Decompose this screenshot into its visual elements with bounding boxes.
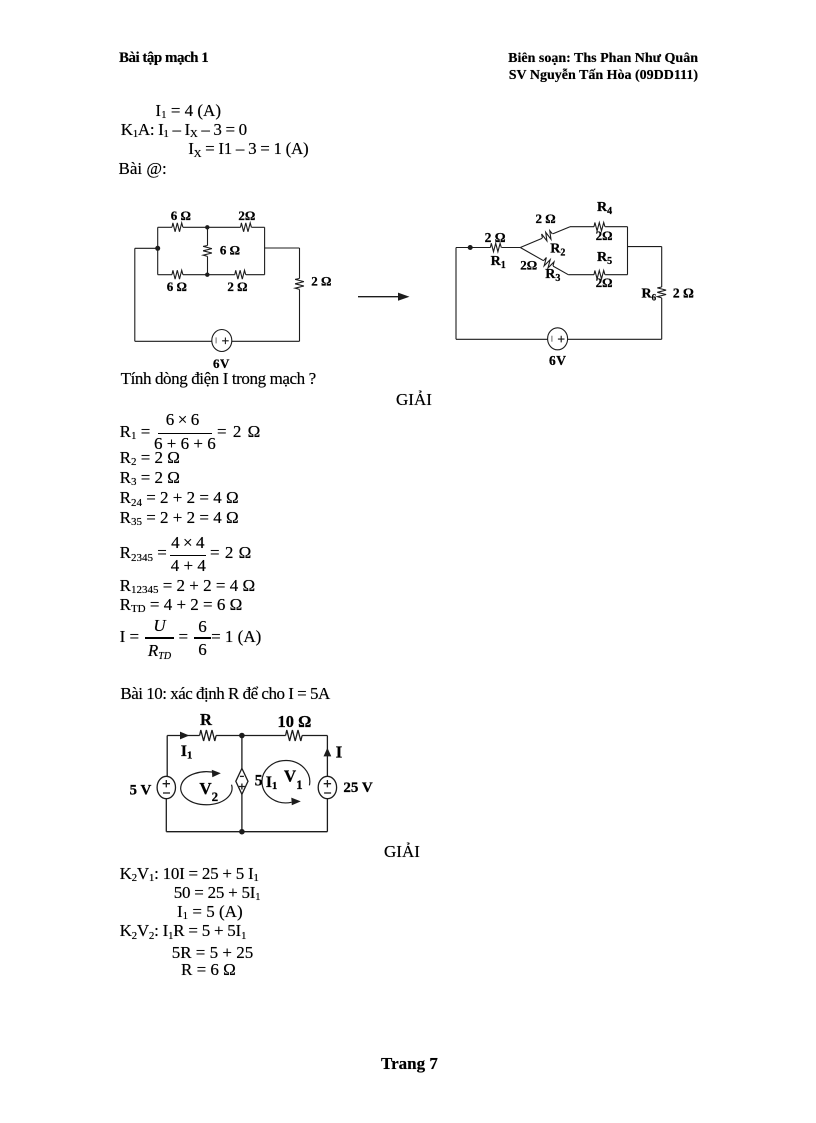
junction node top middle bbox=[205, 225, 209, 229]
mesh loop V2 arc bbox=[181, 772, 232, 805]
resistor 6ohm middle vertical bbox=[203, 246, 212, 257]
plus terminal mark bbox=[558, 336, 565, 343]
equations block 2 bbox=[120, 865, 259, 885]
svg-text:2Ω: 2Ω bbox=[520, 258, 537, 273]
wire bottom branch right bbox=[605, 274, 627, 276]
wire right vertical upper bbox=[299, 248, 301, 279]
junction node bottom bbox=[239, 829, 245, 835]
resistor R6 vertical bbox=[657, 287, 666, 298]
minus mark 25V bbox=[324, 792, 331, 794]
wire top branch left bbox=[570, 226, 594, 228]
Bai 10 bbox=[120, 685, 329, 702]
svg-text:R4: R4 bbox=[597, 200, 612, 217]
plus terminal mark bbox=[222, 338, 229, 345]
resistor R2 diagonal bbox=[541, 230, 554, 242]
minus terminal mark bbox=[215, 337, 217, 343]
wire right vertical upper bbox=[661, 247, 663, 287]
question + giai bbox=[121, 370, 316, 387]
svg-text:2Ω: 2Ω bbox=[238, 208, 255, 223]
voltage source 5V circle bbox=[157, 776, 175, 798]
wire diagonal down to R3 bbox=[520, 248, 543, 261]
resistor R5 bbox=[594, 271, 605, 279]
voltage source 25V circle bbox=[318, 776, 336, 798]
minus mark 5V bbox=[163, 792, 170, 794]
minus mark diamond bbox=[240, 775, 244, 777]
svg-text:6 Ω: 6 Ω bbox=[220, 243, 240, 258]
arrowhead of V1 loop bbox=[291, 798, 301, 806]
plus mark 5V bbox=[163, 780, 170, 787]
wire bottom right of source bbox=[232, 340, 300, 342]
equations block 1 bbox=[120, 423, 151, 443]
svg-text:I1: I1 bbox=[181, 743, 193, 762]
wire top left segment bbox=[167, 735, 199, 737]
wire top right segment bbox=[302, 735, 327, 737]
wire right vertical lower bbox=[326, 799, 328, 832]
wire middle vertical lower bbox=[241, 794, 243, 831]
resistor R4 bbox=[594, 223, 605, 231]
plus mark 25V bbox=[324, 780, 331, 787]
plus mark diamond bbox=[239, 784, 245, 790]
CIRCUIT 1: ladder network with 6V source bbox=[110, 195, 420, 380]
wire bottom right of source bbox=[568, 338, 662, 340]
CIRCUIT 3: two-mesh circuit with dependent source bbox=[120, 700, 400, 850]
junction node left bbox=[155, 246, 160, 251]
voltage source 6V circle bbox=[212, 330, 232, 352]
wire right connector vertical bbox=[627, 227, 629, 275]
svg-text:2 Ω: 2 Ω bbox=[311, 274, 331, 289]
resistor 6ohm bottom bbox=[172, 270, 183, 279]
resistor R1 bbox=[490, 243, 501, 251]
svg-text:R6: R6 bbox=[642, 287, 657, 303]
svg-text:25 V: 25 V bbox=[343, 780, 372, 796]
svg-text:2Ω: 2Ω bbox=[596, 228, 613, 243]
svg-text:V2: V2 bbox=[199, 779, 218, 804]
wire inner box top-left segment bbox=[158, 226, 172, 228]
svg-text:2 Ω: 2 Ω bbox=[227, 279, 247, 294]
svg-text:10 Ω: 10 Ω bbox=[278, 712, 312, 731]
resistor R bbox=[200, 730, 217, 741]
wire bottom left of source bbox=[135, 340, 212, 342]
wire stub right bbox=[628, 246, 662, 248]
header right bbox=[508, 50, 698, 85]
wire top right segment bbox=[252, 226, 265, 228]
svg-text:I: I bbox=[336, 743, 343, 762]
footer bbox=[381, 1055, 438, 1072]
resistor 2ohm top bbox=[241, 223, 252, 232]
svg-text:R3: R3 bbox=[545, 267, 560, 284]
arrowhead of V2 loop bbox=[212, 770, 221, 778]
wire right vertical lower bbox=[299, 289, 301, 341]
wire left vertical bbox=[455, 248, 457, 340]
svg-text:6 Ω: 6 Ω bbox=[167, 279, 187, 294]
svg-text:6V: 6V bbox=[549, 353, 567, 368]
wire diagonal down from R3 bbox=[553, 266, 568, 275]
wire bottom branch left bbox=[568, 274, 594, 276]
wire right vertical upper bbox=[326, 736, 328, 777]
wire to split node bbox=[502, 247, 521, 249]
resistor 2ohm bottom bbox=[235, 270, 246, 279]
svg-text:5 V: 5 V bbox=[130, 783, 152, 799]
svg-text:R2: R2 bbox=[550, 241, 565, 258]
svg-text:R: R bbox=[200, 710, 213, 729]
resistor 2ohm right vertical bbox=[295, 279, 304, 290]
text block 1 bbox=[155, 102, 221, 122]
wire top middle segment bbox=[183, 226, 241, 228]
header left bbox=[119, 51, 208, 66]
wire middle vertical lower bbox=[207, 256, 209, 274]
resistor 10ohm bbox=[286, 730, 302, 741]
minus terminal mark bbox=[551, 336, 553, 342]
wire top-left segment bbox=[456, 247, 490, 249]
wire right vertical lower bbox=[661, 298, 663, 339]
wire stub to outer left bbox=[135, 247, 158, 249]
wire middle vertical upper bbox=[241, 736, 243, 769]
svg-text:5: 5 bbox=[255, 772, 263, 789]
wire top branch right bbox=[605, 226, 627, 228]
resistor R3 diagonal bbox=[541, 257, 555, 270]
wire bottom box left segment bbox=[158, 274, 172, 276]
wire outer left vertical bbox=[134, 248, 136, 341]
wire bottom bbox=[166, 831, 327, 833]
svg-text:2Ω: 2Ω bbox=[596, 275, 613, 290]
resistor 6ohm top bbox=[172, 223, 183, 232]
svg-text:2 Ω: 2 Ω bbox=[673, 286, 694, 301]
junction node bottom middle bbox=[205, 273, 209, 277]
current arrow I1 on top wire bbox=[180, 732, 189, 740]
dependent source diamond bbox=[236, 768, 248, 794]
voltage source 6V circle bbox=[548, 328, 568, 350]
wire diagonal up from R2 bbox=[553, 227, 570, 234]
mesh loop V1 arc bbox=[262, 760, 310, 802]
arrow between circuits bbox=[358, 293, 410, 301]
svg-text:2 Ω: 2 Ω bbox=[485, 230, 506, 245]
svg-text:V1: V1 bbox=[284, 767, 303, 793]
svg-text:R5: R5 bbox=[597, 250, 612, 267]
junction node top bbox=[239, 733, 245, 739]
svg-text:I1: I1 bbox=[266, 774, 278, 792]
svg-text:2 Ω: 2 Ω bbox=[536, 211, 556, 226]
wire middle vertical upper bbox=[207, 227, 209, 245]
wire diagonal up to R2 bbox=[520, 238, 542, 247]
svg-text:R1: R1 bbox=[491, 254, 506, 271]
wire bottom right segment bbox=[246, 274, 265, 276]
wire bottom left of source bbox=[456, 338, 548, 340]
svg-text:6 Ω: 6 Ω bbox=[171, 208, 191, 223]
wire top middle segment bbox=[216, 735, 286, 737]
wire box left side bbox=[157, 227, 159, 274]
wire box right side bbox=[264, 227, 266, 274]
CIRCUIT 2: equivalent network R1..R6 with 6V source bbox=[440, 195, 720, 380]
wire bottom middle segment bbox=[183, 274, 235, 276]
wire left vertical upper bbox=[166, 736, 168, 777]
wire right stub from box bbox=[265, 247, 300, 249]
current arrow I on right wire bbox=[324, 748, 332, 757]
junction node left bbox=[468, 245, 473, 250]
wire left vertical lower bbox=[165, 799, 167, 832]
